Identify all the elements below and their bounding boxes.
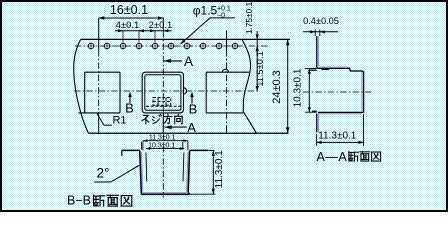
svg-text:R1: R1 bbox=[112, 115, 126, 127]
svg-text:2°: 2° bbox=[97, 166, 110, 181]
svg-text:24±0.3: 24±0.3 bbox=[271, 70, 283, 104]
svg-text:φ1.5: φ1.5 bbox=[193, 4, 218, 18]
svg-text:11.3±0.1: 11.3±0.1 bbox=[318, 130, 357, 141]
svg-text:0.4±0.05: 0.4±0.05 bbox=[303, 16, 339, 26]
svg-text:1.75±0.1: 1.75±0.1 bbox=[244, 2, 254, 35]
svg-text:−0: −0 bbox=[217, 13, 225, 20]
svg-text:B: B bbox=[189, 102, 198, 117]
svg-text:B: B bbox=[125, 101, 134, 116]
svg-text:A—A: A—A bbox=[317, 150, 348, 164]
svg-text:10.3±0.1: 10.3±0.1 bbox=[293, 68, 304, 107]
svg-text:+0.1: +0.1 bbox=[217, 6, 231, 13]
svg-text:16±0.1: 16±0.1 bbox=[110, 3, 148, 17]
svg-text:11.5±0.1: 11.5±0.1 bbox=[255, 51, 265, 86]
svg-text:4±0.1: 4±0.1 bbox=[116, 20, 140, 31]
svg-text:2±0.1: 2±0.1 bbox=[149, 20, 173, 31]
svg-text:A: A bbox=[187, 120, 196, 135]
svg-text:B−B: B−B bbox=[67, 194, 91, 208]
svg-text:11.3±0.1: 11.3±0.1 bbox=[214, 150, 225, 189]
svg-text:A: A bbox=[184, 54, 193, 69]
